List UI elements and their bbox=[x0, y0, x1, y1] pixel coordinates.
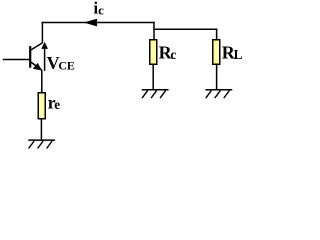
wire collector vertical bbox=[41, 22, 43, 43]
svg-text:Rc: Rc bbox=[159, 42, 177, 62]
svg-text:VCE: VCE bbox=[47, 53, 75, 73]
wire RL top vertical bbox=[216, 29, 218, 40]
ground under re bbox=[28, 140, 55, 148]
resistor RL bbox=[213, 40, 220, 65]
wire below re bbox=[40, 119, 42, 140]
current arrow i_c bbox=[84, 19, 98, 27]
wire below Rc bbox=[152, 65, 154, 90]
wire below RL bbox=[216, 65, 218, 90]
ground under Rc bbox=[142, 90, 169, 98]
svg-text:RL: RL bbox=[222, 42, 243, 62]
wire junction down to Rc bbox=[153, 22, 155, 40]
ground under RL bbox=[205, 90, 232, 98]
resistor Rc bbox=[150, 40, 157, 65]
wire top horizontal bbox=[42, 22, 155, 24]
wire emitter vertical bbox=[41, 70, 43, 93]
svg-text:re: re bbox=[48, 92, 61, 112]
svg-text:ic: ic bbox=[94, 0, 105, 18]
VCE arrow bbox=[41, 42, 48, 71]
resistor re bbox=[38, 93, 45, 119]
transistor Q1 bbox=[30, 43, 42, 71]
wire base lead bbox=[3, 59, 30, 61]
wire to RL bbox=[153, 28, 217, 30]
